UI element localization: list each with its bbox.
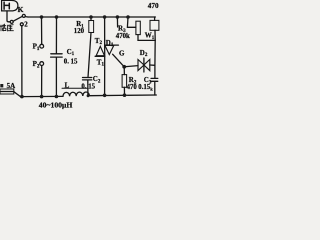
svg-text:D2: D2 xyxy=(140,49,148,58)
wire plug to switch xyxy=(7,11,10,22)
inductor L core bar xyxy=(62,87,88,89)
svg-text:470: 470 xyxy=(127,84,138,91)
svg-text:0. 15: 0. 15 xyxy=(81,83,95,90)
svg-text:2: 2 xyxy=(24,20,28,28)
junction xyxy=(55,15,59,19)
bottom rail right xyxy=(89,94,156,97)
partial char at edge xyxy=(0,84,3,87)
junction xyxy=(55,95,59,99)
wire R1 to C2 xyxy=(88,33,91,78)
switch K blade xyxy=(13,16,22,21)
svg-text:L: L xyxy=(65,81,70,89)
svg-text:T2: T2 xyxy=(95,37,103,46)
wire T1 down xyxy=(104,56,106,95)
junction xyxy=(123,93,127,97)
plug prongs xyxy=(4,2,9,9)
svg-text:D1: D1 xyxy=(106,39,114,48)
triac right triangle xyxy=(105,45,114,54)
svg-text:P2: P2 xyxy=(33,60,40,69)
diac D2 left triangle xyxy=(138,60,144,71)
wire C2 down xyxy=(87,80,89,96)
plug body xyxy=(2,0,18,11)
diac right lead xyxy=(150,64,155,66)
junction xyxy=(89,15,93,19)
triac left triangle xyxy=(96,46,104,55)
junction xyxy=(116,15,120,19)
wire P2 down xyxy=(41,66,43,97)
wire terminal2 down xyxy=(21,26,23,97)
svg-text:0. 15: 0. 15 xyxy=(64,59,78,66)
inductor L coil xyxy=(63,92,89,96)
svg-text:5A: 5A xyxy=(7,82,16,90)
junction xyxy=(20,95,24,99)
bottom rail left xyxy=(21,95,64,97)
label socket (Chinese) xyxy=(0,24,13,31)
junction xyxy=(103,94,107,98)
wire rail to R3 xyxy=(127,17,135,27)
wire C3 down xyxy=(154,82,156,96)
diac D2 center bar xyxy=(143,58,145,72)
potentiometer W1 xyxy=(150,20,159,30)
wire R2 top xyxy=(123,67,125,75)
svg-text:470: 470 xyxy=(148,2,159,10)
fuse body xyxy=(0,89,14,94)
junction gate node xyxy=(122,65,126,69)
svg-text:W1: W1 xyxy=(145,32,155,41)
resistor R3 xyxy=(136,21,140,34)
junction xyxy=(40,95,44,99)
terminal 2 xyxy=(20,23,23,26)
wire W1 bottom xyxy=(154,30,156,40)
gate wire xyxy=(113,54,125,67)
resistor R2 xyxy=(122,75,127,88)
svg-text:T1: T1 xyxy=(97,58,105,67)
triac top bar xyxy=(105,44,119,46)
capacitor C2 xyxy=(83,78,92,80)
junction xyxy=(87,94,90,97)
wire C1 lower xyxy=(55,57,57,96)
resistor R1 xyxy=(89,21,94,33)
switch K contact left xyxy=(10,20,13,23)
wire switch to rail xyxy=(25,16,28,18)
wire R2 bottom xyxy=(123,87,125,95)
capacitor C3 xyxy=(151,78,158,81)
svg-text:P1: P1 xyxy=(33,43,40,52)
svg-text:C1: C1 xyxy=(67,48,75,57)
wire R1 top xyxy=(90,17,92,21)
capacitor C1 xyxy=(51,54,63,57)
svg-text:40~100μH: 40~100μH xyxy=(39,100,73,109)
svg-text:470k: 470k xyxy=(116,33,130,40)
diac left lead xyxy=(124,66,138,67)
node P1 wire xyxy=(41,17,43,44)
wire C1 upper xyxy=(55,17,57,54)
switch K contact right xyxy=(22,14,25,17)
top rail xyxy=(28,16,155,18)
wire R3 bottom xyxy=(137,35,139,41)
wire fuse to rail xyxy=(14,92,21,97)
triac D1 main vertical xyxy=(104,17,106,56)
triac bottom bar xyxy=(95,55,105,57)
junction xyxy=(40,15,44,19)
svg-text:K: K xyxy=(18,5,24,14)
junction xyxy=(126,15,130,19)
terminal P1 xyxy=(40,44,44,48)
junction xyxy=(103,15,107,19)
terminal P2 xyxy=(40,62,44,66)
riser stub T2 xyxy=(116,17,118,27)
wire right column down xyxy=(154,40,156,78)
wire R3/W1 horizontal xyxy=(138,39,155,41)
diac D2 right triangle xyxy=(144,60,150,71)
svg-text:G: G xyxy=(119,49,125,57)
fuse through-line xyxy=(0,91,14,93)
wire rail to W1 xyxy=(154,17,156,20)
svg-text:120: 120 xyxy=(74,28,85,35)
